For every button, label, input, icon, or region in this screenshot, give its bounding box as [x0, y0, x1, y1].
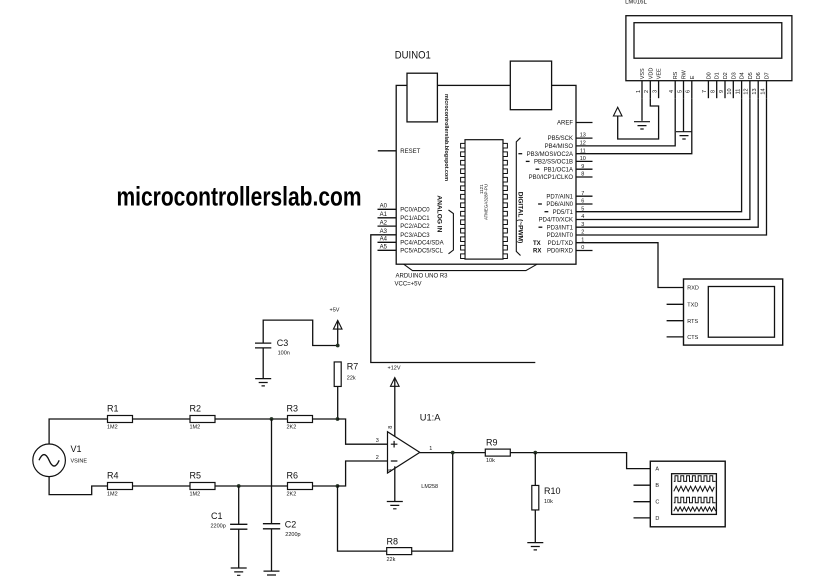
capacitor C2 — [263, 419, 301, 571]
svg-text:8: 8 — [581, 172, 584, 178]
svg-text:D6: D6 — [756, 72, 762, 79]
resistor R5 — [190, 470, 216, 497]
svg-text:TX: TX — [533, 241, 541, 247]
svg-text:PB0/ICP1/CLKO: PB0/ICP1/CLKO — [529, 175, 574, 181]
svg-text:R5: R5 — [190, 470, 202, 480]
junction C2 top rail — [270, 417, 274, 421]
junction +5V node — [336, 344, 340, 348]
svg-text:R1: R1 — [107, 403, 119, 413]
pin A3 wire to op-amp output node — [371, 235, 536, 363]
junction C1 bottom rail — [237, 484, 241, 488]
virtual terminal body — [684, 279, 783, 345]
svg-text:D1: D1 — [715, 72, 721, 79]
svg-text:C2: C2 — [285, 520, 297, 530]
digital pin 9 stub — [576, 168, 593, 170]
svg-text:PC5/ADC5/SCL: PC5/ADC5/SCL — [400, 248, 443, 254]
svg-text:VSINE: VSINE — [71, 458, 88, 464]
svg-text:LM016L: LM016L — [625, 0, 647, 6]
pin A5 stub — [378, 249, 397, 251]
power +5V arrow — [330, 308, 342, 346]
svg-text:6: 6 — [581, 199, 584, 205]
wire op-amp pin 4 to ground — [394, 466, 396, 501]
LCD pin 14 D7 stub — [766, 81, 768, 99]
svg-text:RS: RS — [673, 71, 679, 79]
wire E to arduino pin 11 — [593, 98, 692, 154]
pin A0 stub — [378, 208, 397, 210]
scope channel C stub — [634, 501, 651, 503]
digital pin 0 stub — [576, 250, 593, 252]
wire R8 to output node — [412, 453, 453, 551]
LCD pin 7 D0 stub — [707, 81, 709, 99]
pin AREF stub — [576, 122, 593, 124]
LCD pin 12 D5 stub — [749, 81, 751, 99]
svg-text:ATMEGA328P-PU: ATMEGA328P-PU — [484, 184, 489, 220]
svg-text:D7: D7 — [765, 72, 771, 79]
wire R1 to R2 — [133, 418, 191, 420]
power +12V arrow — [388, 366, 401, 437]
svg-text:PD6/AIN0: PD6/AIN0 — [546, 202, 573, 208]
svg-text:4: 4 — [581, 214, 584, 220]
digital pin 2 stub — [576, 234, 593, 236]
svg-text:10k: 10k — [486, 458, 495, 464]
svg-text:ANALOG IN: ANALOG IN — [435, 195, 441, 232]
svg-text:LM258: LM258 — [421, 484, 438, 490]
svg-text:VCC=+5V: VCC=+5V — [395, 281, 422, 287]
svg-text:2200p: 2200p — [211, 524, 226, 530]
resistor R9 — [485, 437, 510, 464]
PWM mark pin 5 — [545, 211, 549, 213]
svg-text:VEE: VEE — [657, 68, 663, 79]
svg-text:10k: 10k — [544, 499, 553, 505]
LCD pin 13 D6 stub — [757, 81, 759, 99]
scope waveform square 2 — [674, 497, 716, 503]
wire op-amp output to R9 — [420, 452, 485, 454]
svg-text:22k: 22k — [347, 375, 356, 381]
svg-text:7: 7 — [702, 90, 708, 93]
wire R2 to R3 (C2 tap) — [215, 418, 288, 420]
wire RW to ground — [683, 98, 685, 132]
wire inverting node to op-amp pin 2 — [338, 461, 388, 486]
svg-text:2K2: 2K2 — [287, 425, 297, 431]
wire R3 to noninverting node — [313, 418, 338, 420]
svg-text:3: 3 — [581, 222, 584, 228]
svg-text:DUINO1: DUINO1 — [395, 50, 431, 62]
LCD pin 2 VDD stub — [649, 81, 651, 99]
wire R9 to scope node — [510, 452, 535, 454]
svg-text:2: 2 — [376, 455, 379, 461]
voltage source V1 — [33, 444, 66, 477]
svg-text:PD7/AIN1: PD7/AIN1 — [546, 194, 573, 200]
op-amp U1:A — [388, 432, 420, 473]
svg-text:1M2: 1M2 — [190, 425, 201, 431]
wire VSS to ground — [641, 98, 643, 121]
LCD LCD1 body — [626, 16, 792, 81]
svg-text:PD0/RXD: PD0/RXD — [547, 249, 574, 255]
svg-text:3: 3 — [652, 90, 658, 93]
LCD pin 6 E stub — [691, 81, 693, 99]
svg-text:2K2: 2K2 — [287, 492, 297, 498]
svg-text:1: 1 — [581, 237, 584, 243]
svg-text:PB1/OC1A: PB1/OC1A — [544, 167, 573, 173]
svg-text:1M2: 1M2 — [107, 492, 118, 498]
wire D4 to arduino pin 5 — [593, 98, 742, 212]
svg-text:22k: 22k — [387, 557, 396, 563]
wire VDD route to +5V — [618, 98, 659, 139]
svg-text:A0: A0 — [380, 204, 388, 210]
pin A4 stub — [378, 241, 397, 243]
terminal pin TXD stub — [667, 303, 684, 305]
LCD pin 9 D2 stub — [724, 81, 726, 99]
svg-text:VSS: VSS — [640, 68, 646, 79]
resistor R4 — [107, 470, 133, 497]
wire V1 top to R1 — [49, 419, 107, 444]
pin A2 stub — [378, 225, 397, 227]
svg-text:PD2/INT0: PD2/INT0 — [547, 233, 574, 239]
power +5V arrow (VDD) — [613, 107, 622, 116]
svg-text:2: 2 — [581, 230, 584, 236]
svg-text:PD1/TXD: PD1/TXD — [548, 241, 574, 247]
PWM mark pin 9 — [536, 168, 540, 170]
svg-text:PB3/MOSI/OC2A: PB3/MOSI/OC2A — [527, 152, 573, 158]
scope waveform zigzag 1 — [674, 486, 715, 491]
capacitor C3 — [255, 320, 338, 379]
svg-text:13: 13 — [580, 133, 586, 139]
svg-text:C3: C3 — [277, 338, 289, 348]
svg-text:A1: A1 — [380, 212, 388, 218]
resistor R10 — [532, 485, 561, 510]
resistor R7 — [334, 362, 358, 387]
wire D7 to arduino pin 2 — [593, 98, 767, 235]
scope channel B stub — [634, 484, 651, 486]
svg-text:1M2: 1M2 — [190, 492, 201, 498]
wire R10 to ground — [534, 510, 536, 543]
LCD pin 8 D1 stub — [716, 81, 718, 99]
svg-text:0: 0 — [581, 245, 584, 251]
chip ATMEGA328P U1 body — [461, 140, 508, 259]
svg-text:R6: R6 — [287, 470, 299, 480]
svg-text:RTS: RTS — [687, 319, 698, 325]
svg-text:PC4/ADC4/SDA: PC4/ADC4/SDA — [400, 240, 443, 246]
svg-text:10: 10 — [580, 156, 586, 162]
svg-text:RW: RW — [682, 69, 688, 79]
svg-text:D0: D0 — [706, 72, 712, 79]
svg-text:DIGITAL (~PWM): DIGITAL (~PWM) — [516, 192, 522, 244]
svg-text:E: E — [690, 75, 696, 79]
resistor R2 — [190, 403, 216, 430]
PWM mark pin 6 — [538, 203, 542, 205]
svg-text:9: 9 — [719, 90, 725, 93]
svg-text:PB4/MISO: PB4/MISO — [545, 144, 574, 150]
svg-text:+5V: +5V — [330, 308, 340, 314]
PWM mark pin 11 — [518, 153, 522, 155]
svg-text:R7: R7 — [347, 362, 359, 372]
scope waveform zigzag 2 — [674, 507, 716, 511]
svg-text:R4: R4 — [107, 470, 119, 480]
svg-text:100n: 100n — [278, 351, 290, 357]
svg-text:10: 10 — [727, 88, 733, 94]
svg-text:PB5/SCK: PB5/SCK — [548, 136, 573, 142]
LCD pin 5 RW stub — [683, 81, 685, 99]
svg-text:A5: A5 — [380, 245, 388, 251]
svg-text:PC1/ADC1: PC1/ADC1 — [400, 216, 430, 222]
svg-text:B: B — [655, 483, 659, 489]
bracket DIGITAL (~PWM) — [516, 138, 520, 256]
svg-text:PC0/ADC0: PC0/ADC0 — [400, 207, 430, 213]
svg-text:V1: V1 — [71, 444, 82, 454]
wire noninverting node to op-amp pin 3 — [338, 419, 388, 444]
ground C1 — [231, 568, 247, 575]
digital pin 10 stub — [576, 160, 593, 162]
PWM mark pin 3 — [539, 226, 543, 228]
svg-text:A4: A4 — [380, 237, 388, 243]
svg-text:2: 2 — [644, 90, 650, 93]
ground C3 — [255, 379, 271, 386]
resistor R8 — [387, 536, 412, 563]
LCD pin 1 VSS stub — [641, 81, 643, 99]
svg-text:5: 5 — [581, 206, 584, 212]
scope waveform square 1 — [674, 476, 716, 482]
svg-text:D5: D5 — [748, 72, 754, 79]
svg-text:microcontrollerslab.blogspot.c: microcontrollerslab.blogspot.com — [443, 94, 449, 182]
svg-text:4: 4 — [669, 90, 675, 93]
svg-text:PD3/INT1: PD3/INT1 — [547, 225, 574, 231]
svg-text:1: 1 — [429, 446, 432, 452]
svg-text:RESET: RESET — [400, 149, 420, 155]
oscilloscope body — [650, 461, 725, 527]
svg-text:11: 11 — [580, 148, 586, 154]
LCD pin 4 RS stub — [674, 81, 676, 99]
pin A1 stub — [378, 217, 397, 219]
svg-text:TXD: TXD — [687, 302, 698, 308]
digital pin 4 stub — [576, 219, 593, 221]
svg-text:+12V: +12V — [388, 366, 401, 372]
wire output node to scope channel A — [535, 453, 650, 469]
svg-text:PD4/T0/XCK: PD4/T0/XCK — [539, 218, 573, 224]
svg-text:C: C — [655, 500, 659, 506]
ground C2 — [264, 571, 280, 577]
svg-text:6: 6 — [686, 90, 692, 93]
svg-text:4: 4 — [388, 469, 394, 472]
LCD pin 11 D4 stub — [741, 81, 743, 99]
resistor R1 — [107, 403, 133, 430]
svg-text:13: 13 — [752, 88, 758, 94]
junction scope node — [533, 451, 537, 455]
svg-text:A2: A2 — [380, 220, 388, 226]
digital pin 11 stub — [576, 153, 593, 155]
digital pin 1 stub — [576, 242, 593, 244]
ground op-amp — [387, 502, 403, 509]
svg-text:9: 9 — [581, 164, 584, 170]
svg-text:R2: R2 — [190, 403, 202, 413]
svg-text:CTS: CTS — [687, 335, 698, 341]
svg-text:7: 7 — [581, 191, 584, 197]
digital pin 8 stub — [576, 176, 593, 178]
svg-text:1: 1 — [636, 90, 642, 93]
scope channel D stub — [634, 517, 651, 519]
wire D5 to arduino pin 4 — [593, 98, 750, 219]
capacitor C1 — [211, 486, 248, 568]
svg-text:AREF: AREF — [557, 121, 573, 127]
svg-text:R10: R10 — [544, 486, 561, 496]
PWM mark pin 10 — [526, 160, 530, 162]
bracket ANALOG IN — [449, 210, 454, 254]
svg-text:RX: RX — [533, 249, 541, 255]
svg-text:8: 8 — [388, 426, 394, 429]
wire R5 to R6 (C1 tap) — [215, 485, 288, 487]
arduino module DUINO1 body — [396, 61, 576, 271]
svg-text:5: 5 — [677, 90, 683, 93]
svg-text:14: 14 — [760, 88, 766, 94]
wire scope node to R10 — [534, 453, 536, 486]
svg-text:D2: D2 — [723, 72, 729, 79]
resistor R6 — [287, 470, 313, 497]
svg-text:12: 12 — [744, 88, 750, 94]
svg-text:PC3/ADC3: PC3/ADC3 — [400, 233, 430, 239]
wire inverting node to R8 — [338, 486, 388, 551]
digital pin 6 stub — [576, 203, 593, 205]
svg-text:A3: A3 — [380, 229, 388, 235]
svg-text:D: D — [655, 516, 659, 522]
resistor R3 — [287, 403, 313, 430]
ground R10 — [527, 543, 543, 550]
wire V1 bottom to R4 — [49, 477, 107, 495]
ground LCD VSS — [634, 122, 650, 129]
digital pin 13 stub — [576, 137, 593, 139]
digital pin 7 stub — [576, 195, 593, 197]
svg-text:PD5/T1: PD5/T1 — [553, 210, 574, 216]
svg-text:1121: 1121 — [479, 184, 484, 194]
svg-text:A: A — [655, 467, 659, 473]
svg-text:3: 3 — [376, 438, 379, 444]
pin RESET stub — [378, 150, 396, 152]
wire R4 to R5 — [133, 485, 191, 487]
svg-text:PC2/ADC2: PC2/ADC2 — [400, 224, 430, 230]
svg-text:1M2: 1M2 — [107, 425, 118, 431]
wire D6 to arduino pin 3 — [593, 98, 759, 227]
svg-text:D3: D3 — [731, 72, 737, 79]
svg-text:PB2/SS/OC1B: PB2/SS/OC1B — [534, 160, 573, 166]
digital pin 3 stub — [576, 226, 593, 228]
svg-text:R8: R8 — [387, 536, 399, 546]
wire R7 to noninverting node — [337, 387, 339, 420]
wire R6 to inverting node — [313, 485, 338, 487]
LCD pin 3 VEE stub — [658, 81, 660, 99]
svg-text:11: 11 — [735, 89, 741, 95]
digital pin 5 stub — [576, 211, 593, 213]
svg-text:ARDUINO UNO R3: ARDUINO UNO R3 — [396, 274, 449, 280]
svg-text:R9: R9 — [486, 437, 498, 447]
junction noninverting node — [336, 417, 340, 421]
wire RS to arduino pin 12 — [593, 98, 676, 146]
svg-text:8: 8 — [711, 90, 717, 93]
terminal pin CTS stub — [667, 336, 684, 338]
svg-text:U1:A: U1:A — [420, 412, 441, 422]
ground LCD RW — [676, 132, 692, 139]
svg-text:12: 12 — [580, 141, 586, 147]
svg-text:VDD: VDD — [648, 68, 654, 80]
terminal pin RTS stub — [667, 320, 684, 322]
svg-text:microcontrollerslab.com: microcontrollerslab.com — [117, 182, 362, 212]
svg-text:RXD: RXD — [687, 286, 699, 292]
svg-text:C1: C1 — [211, 511, 223, 521]
svg-text:R3: R3 — [287, 403, 299, 413]
junction output node — [451, 451, 455, 455]
wire arduino TXD to terminal RXD — [593, 243, 684, 288]
digital pin 12 stub — [576, 145, 593, 147]
LCD pin 10 D3 stub — [732, 81, 734, 99]
junction inverting node — [336, 484, 340, 488]
svg-text:2200p: 2200p — [285, 532, 300, 538]
svg-text:D4: D4 — [740, 72, 746, 79]
